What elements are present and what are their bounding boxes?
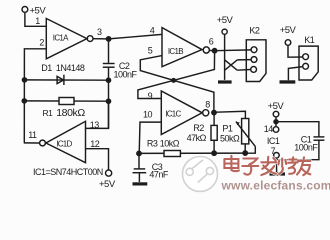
IC1D output bubble (40, 140, 46, 146)
svg-text:6: 6 (209, 37, 214, 47)
svg-text:1N4148: 1N4148 (56, 63, 85, 73)
node dot rail-D1 (22, 78, 26, 82)
node dot R2 bottom (212, 151, 216, 155)
svg-text:47kΩ: 47kΩ (187, 133, 207, 143)
capacitor C1 (277, 122, 325, 160)
wire K1 lower contact to ground (288, 67, 302, 81)
op-amp gate IC1A (46, 19, 87, 59)
svg-text:9: 9 (148, 91, 153, 101)
svg-text:+5V: +5V (99, 179, 116, 190)
svg-text:IC1D: IC1D (56, 139, 72, 148)
svg-text:R1: R1 (43, 108, 54, 118)
svg-text:10kΩ: 10kΩ (160, 138, 180, 148)
wire pin 12 (86, 149, 109, 170)
IC1A output bubble (87, 36, 93, 42)
wire feedback 5 to node 8 (140, 56, 214, 113)
wire pin 13 (86, 101, 109, 128)
svg-text:11: 11 (28, 130, 37, 140)
svg-text:12: 12 (90, 139, 100, 149)
power +5V terminal K2 (217, 15, 234, 80)
potentiometer P1 (220, 119, 255, 154)
ground under K2 (218, 80, 232, 83)
wire node 8 to P1 (216, 111, 245, 118)
wire node3 to pin 4 (109, 34, 162, 39)
svg-text:100nF: 100nF (294, 142, 318, 152)
svg-text:+5V: +5V (268, 101, 285, 112)
svg-text:10: 10 (143, 110, 153, 120)
wire output 3 (93, 38, 107, 40)
svg-text:www.elecfans.com: www.elecfans.com (221, 179, 330, 193)
wire pin 2 and left rail (24, 49, 46, 143)
svg-text:4: 4 (150, 25, 155, 35)
svg-text:1: 1 (35, 16, 40, 26)
power +5V terminal top-left (22, 6, 46, 17)
wire pin 1 (25, 12, 46, 26)
wire pin 10 (139, 122, 161, 153)
svg-text:5: 5 (148, 46, 153, 56)
node dot rail-R1 (22, 99, 26, 103)
capacitor C3 (133, 153, 169, 182)
svg-text:100nF: 100nF (114, 69, 138, 79)
diode D1 (25, 63, 109, 85)
svg-text:+5V: +5V (217, 15, 234, 26)
svg-text:14: 14 (264, 124, 274, 134)
svg-text:180kΩ: 180kΩ (56, 107, 85, 119)
node dot rail-R1 right (106, 99, 110, 103)
ground under C3 (133, 182, 148, 185)
relay K2 (246, 26, 266, 82)
svg-text:IC1B: IC1B (168, 47, 183, 56)
wire node 6 to K2 top contact (215, 49, 252, 52)
gate IC1B (162, 28, 202, 67)
svg-text:8: 8 (205, 99, 210, 109)
node blob at crossing (172, 79, 176, 83)
svg-text:2: 2 (39, 37, 44, 47)
resistor R1 (24, 98, 108, 120)
IC1C output bubble (203, 110, 209, 116)
gate IC1D (points left) (46, 121, 86, 162)
node dot rail-D1 right (106, 78, 110, 82)
svg-text:IC1C: IC1C (165, 109, 181, 118)
svg-text:R2: R2 (193, 123, 204, 133)
svg-text:R3: R3 (147, 138, 158, 148)
node junction output 8 (212, 110, 216, 114)
wire output 6 (209, 49, 212, 51)
ground under K1 (280, 80, 296, 83)
svg-text:K2: K2 (249, 26, 260, 36)
svg-text:IC1A: IC1A (53, 34, 69, 43)
svg-text:P1: P1 (222, 123, 233, 133)
svg-text:IC1=SN74HCT00N: IC1=SN74HCT00N (33, 167, 103, 177)
svg-text:+5V: +5V (280, 25, 297, 36)
power +5V terminal bottom (pin 12) (99, 170, 116, 190)
node junction output3 (106, 37, 110, 41)
wire pin 11 to left rail (24, 142, 40, 144)
ground under pin 7 (270, 172, 286, 175)
watermark logo (183, 157, 218, 192)
resistor R2 (187, 113, 218, 154)
pin 7 terminal (271, 146, 280, 172)
svg-text:3: 3 (97, 27, 102, 37)
watermark text elecfans (221, 156, 330, 193)
node junction output 6 (212, 49, 216, 53)
power +5V terminal K1 (280, 25, 303, 57)
IC1B output bubble (203, 47, 209, 53)
gate IC1C (161, 91, 202, 135)
svg-text:D1: D1 (41, 63, 52, 73)
svg-text:K1: K1 (304, 35, 315, 45)
svg-text:13: 13 (90, 120, 100, 130)
power +5V terminal IC1 pin14 (264, 101, 285, 134)
relay K1 (299, 35, 318, 80)
node dot P1 bottom (243, 151, 247, 155)
node dot R3-C3 (137, 151, 141, 155)
wire feedback 6 to pin 9 (138, 51, 215, 99)
capacitor C2 (103, 61, 138, 79)
svg-text:47nF: 47nF (149, 169, 169, 179)
wire right rail with C2 (108, 39, 110, 128)
resistor R3 (139, 138, 245, 156)
crossover switch wires K2 (225, 60, 252, 71)
svg-text:50kΩ: 50kΩ (220, 133, 240, 143)
svg-text:IC1: IC1 (267, 136, 280, 146)
